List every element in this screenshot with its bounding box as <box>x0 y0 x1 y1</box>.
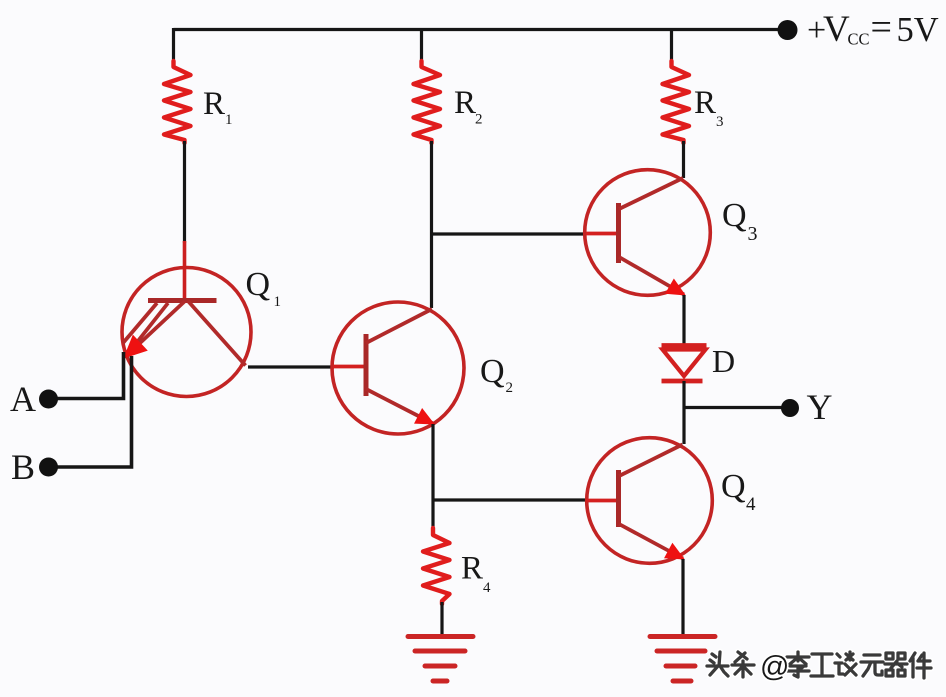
svg-text:Q: Q <box>480 353 505 390</box>
svg-text:4: 4 <box>483 580 491 596</box>
label R3 <box>694 85 724 130</box>
node Y terminal dot <box>781 399 799 417</box>
resistor R4 <box>423 528 450 604</box>
svg-text:B: B <box>11 447 35 487</box>
svg-text:3: 3 <box>748 223 758 245</box>
svg-text:V: V <box>823 9 850 50</box>
resistor R1 <box>164 61 191 143</box>
wire R4 to ground <box>440 602 443 637</box>
wire R1 to Q1 base <box>183 141 186 243</box>
wire input A <box>49 352 124 399</box>
wire Vcc top rail <box>174 28 789 31</box>
wire Q2 emitter down, junction to Q4 base <box>431 424 434 531</box>
label Q2 <box>480 353 513 396</box>
resistor R3 <box>663 61 690 143</box>
svg-text:Q: Q <box>722 197 747 234</box>
svg-text:CC: CC <box>848 30 870 49</box>
label R1 <box>203 86 233 128</box>
svg-text:R: R <box>461 551 483 587</box>
svg-text:1: 1 <box>274 294 282 310</box>
node A terminal dot <box>39 390 58 409</box>
wire to Q4 base <box>433 498 585 501</box>
svg-text:Q: Q <box>721 468 746 505</box>
label Q4 <box>721 468 756 515</box>
svg-text:D: D <box>712 343 735 379</box>
wire R1 top lead <box>172 28 175 62</box>
wire R2 to Q2 collector, junction to Q3 base <box>430 141 433 308</box>
transistor Q3 <box>585 170 711 296</box>
wire Q1 collector to Q2 base <box>248 365 334 368</box>
label +Vcc = 5V <box>807 7 939 51</box>
wire R3 top lead <box>670 28 673 62</box>
svg-text:5V: 5V <box>897 11 939 49</box>
node Vcc terminal dot <box>778 20 798 40</box>
ground (left, under R4) <box>408 637 473 682</box>
wire input B <box>49 356 132 467</box>
transistor Q2 <box>332 302 464 434</box>
svg-text:@: @ <box>760 651 789 683</box>
label R4 <box>461 551 491 597</box>
wire Q4 emitter to ground <box>681 559 684 637</box>
svg-text:4: 4 <box>746 494 756 515</box>
watermark 头条@李工谈元器件 <box>707 651 931 683</box>
ground (right, under Q4) <box>650 637 715 682</box>
wire to Q3 base <box>432 232 586 235</box>
label Q3 <box>722 197 758 245</box>
svg-text:R: R <box>694 85 716 121</box>
label R2 <box>454 85 483 128</box>
svg-text:=: = <box>871 7 892 49</box>
svg-text:2: 2 <box>475 112 483 128</box>
resistor R2 <box>414 61 441 143</box>
wire Q3 emitter to diode <box>682 295 685 344</box>
wire R3 to Q3 collector <box>682 141 685 178</box>
svg-text:R: R <box>454 85 476 121</box>
svg-text:1: 1 <box>225 112 233 128</box>
svg-text:Y: Y <box>807 387 833 427</box>
svg-text:3: 3 <box>716 114 724 130</box>
svg-text:A: A <box>10 379 36 419</box>
wire diode to Y and Q4 collector <box>682 381 685 444</box>
label Q1 <box>246 266 282 310</box>
transistor Q1 (multi-emitter) <box>122 241 251 397</box>
wire R2 top lead <box>420 28 423 62</box>
svg-text:R: R <box>203 86 225 122</box>
diode D <box>662 346 707 382</box>
node B terminal dot <box>39 458 58 477</box>
wire output Y <box>684 406 790 409</box>
svg-text:Q: Q <box>246 266 271 303</box>
transistor Q4 <box>586 438 712 564</box>
svg-text:2: 2 <box>506 380 514 396</box>
